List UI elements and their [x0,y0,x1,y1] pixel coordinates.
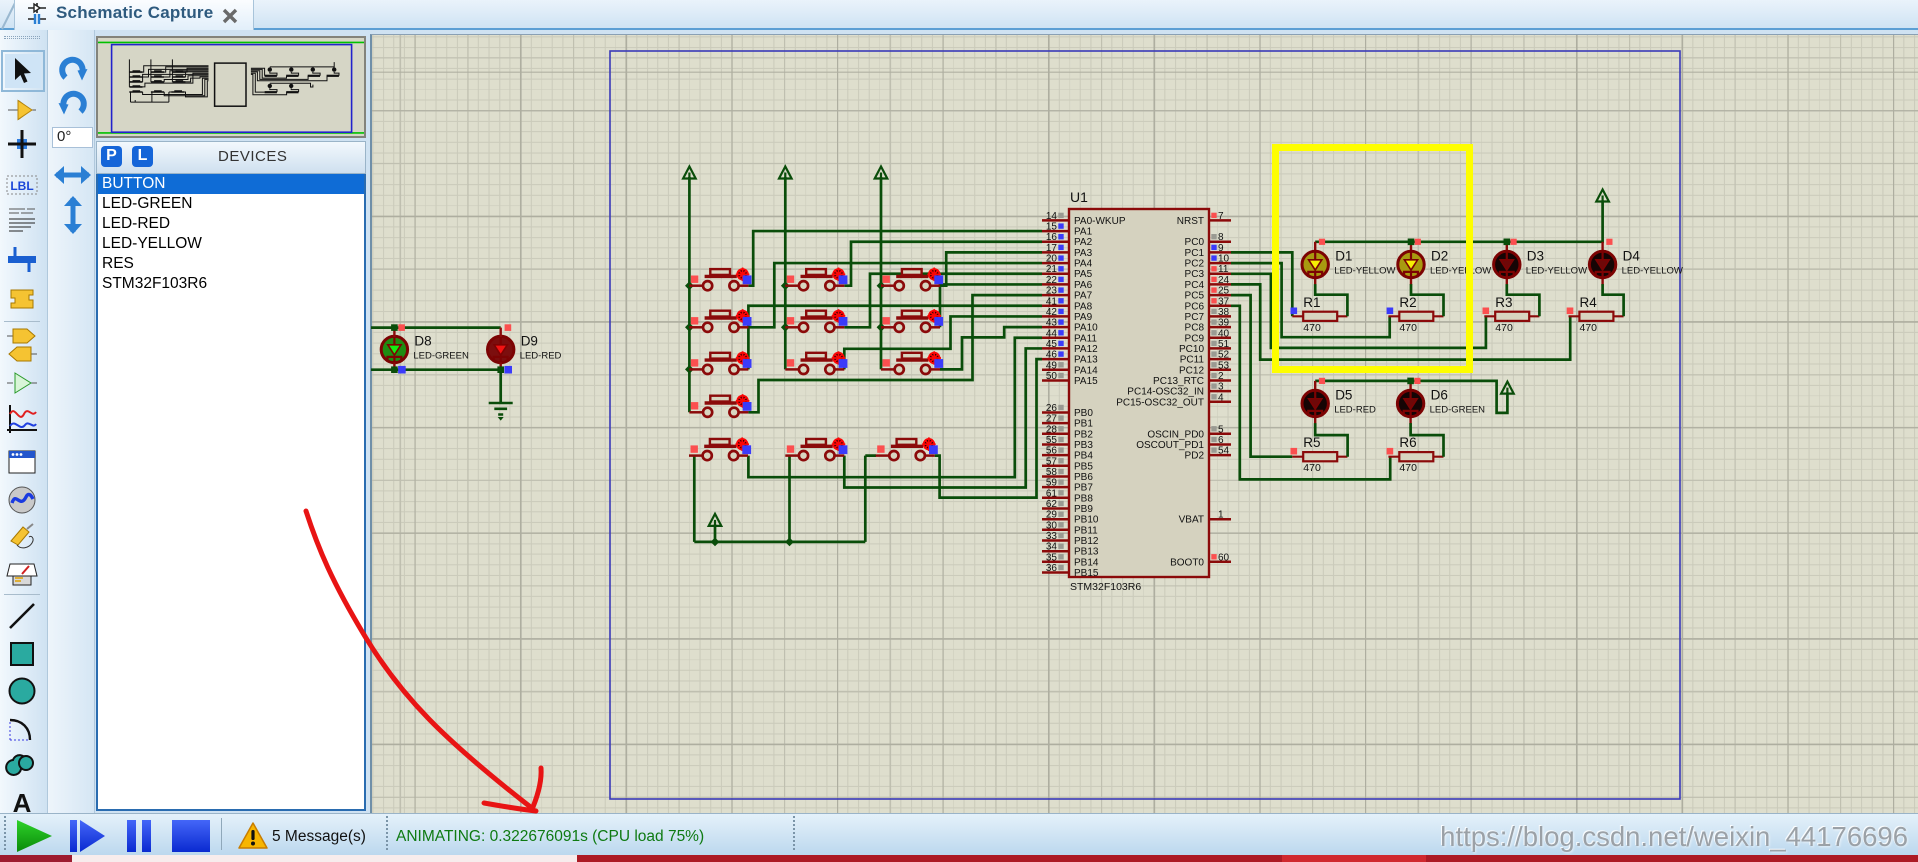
pin 53 PC12 [1209,369,1231,372]
devices header label [218,148,287,165]
svg-text:PC11: PC11 [1180,355,1205,366]
pin 17 PA3 [1042,251,1069,254]
svg-text:7: 7 [1218,211,1224,222]
net PA5 from button row2 col2 [844,274,1042,328]
pin 46 PA13 [1042,358,1069,361]
svg-text:14: 14 [1046,211,1058,222]
net PA10 from button row3 col3 [940,327,1042,369]
overview mcu [215,63,246,106]
svg-text:D2: D2 [1431,249,1448,264]
pushbutton row1 col3 [881,268,943,291]
svg-text:LED-GREEN: LED-GREEN [413,351,469,362]
wire D8 anode stub [393,328,395,337]
pin 3 PC14-OSC32_IN [1209,390,1231,393]
pin 37 PC6 [1209,305,1231,308]
pin 36 PB15 [1042,571,1069,574]
wire D1 anode stub [1314,242,1316,252]
wire D9 cathode stub [500,362,502,369]
pin 51 PC10 [1209,347,1231,350]
pin 6 OSCOUT_PD1 [1209,443,1231,446]
power terminal arrow lower right [1501,382,1514,394]
wire D3 cathode to R3 [1506,275,1508,285]
svg-text:NRST: NRST [1177,216,1204,227]
net PC6 to R6 [1231,306,1390,480]
svg-text:PB10: PB10 [1074,515,1099,526]
pin 4 PC15-OSC32_OUT [1209,401,1231,404]
svg-text:PC15-OSC32_OUT: PC15-OSC32_OUT [1116,397,1204,408]
svg-text:26: 26 [1046,403,1058,414]
svg-text:29: 29 [1046,510,1058,521]
wire anode bus D1-D4 to power [1315,200,1602,241]
junction dot anode bus D6 [1407,378,1414,385]
pin 43 PA10 [1042,326,1069,329]
svg-text:470: 470 [1303,322,1321,334]
svg-text:45: 45 [1046,339,1058,350]
pin 41 PA8 [1042,305,1069,308]
pin 25 PC5 [1209,294,1231,297]
mirror vertical button [62,196,84,234]
svg-text:PC7: PC7 [1185,312,1205,323]
svg-text:9: 9 [1218,243,1224,254]
pin 44 PA11 [1042,337,1069,340]
svg-text:PC3: PC3 [1185,269,1205,280]
toolbar icon 2d line mode [5,599,41,633]
svg-text:D1: D1 [1335,249,1352,264]
resistor R3 [1484,312,1539,321]
bottom strip [0,855,1918,862]
wire D2 cathode to R2 [1410,275,1412,285]
svg-text:16: 16 [1046,232,1058,243]
pin 55 PB3 [1042,443,1069,446]
pin 60 BOOT0 [1209,561,1231,564]
pin 22 PA6 [1042,283,1069,286]
wire D4 anode stub [1601,242,1603,252]
svg-text:PB9: PB9 [1074,504,1093,515]
svg-text:PB11: PB11 [1074,525,1098,536]
yellow highlight rectangle [1276,148,1470,370]
animation status [396,828,704,846]
wire D5 anode stub [1314,381,1316,391]
svg-text:PA1: PA1 [1074,227,1093,238]
ground symbol [489,403,513,415]
pin 7 NRST [1209,219,1231,222]
pin 30 PB11 [1042,529,1069,532]
overview sheet rectangle [112,45,352,133]
toolbar icon graph mode [5,366,41,394]
pin 54 PD2 [1209,454,1231,457]
svg-text:PB1: PB1 [1074,419,1093,430]
wire D6 anode stub [1409,381,1411,391]
wire D8 D9 anode rail [371,326,501,329]
svg-text:PB14: PB14 [1074,557,1099,568]
wire row5 c left drop [865,456,876,542]
pin 1 VBAT [1209,518,1231,521]
play button [17,820,53,852]
overview buttons [129,71,185,92]
toolbar icon 2d arc mode [5,712,41,746]
resistor R6 [1388,452,1443,461]
svg-text:62: 62 [1046,499,1058,510]
svg-text:PA6: PA6 [1074,280,1093,291]
resistor R1 [1292,312,1347,321]
devices list [96,174,366,811]
pin 45 PA12 [1042,347,1069,350]
library button L [132,146,153,167]
svg-text:58: 58 [1046,467,1058,478]
svg-text:PA7: PA7 [1074,291,1093,302]
warning icon [238,822,268,850]
svg-text:D8: D8 [414,334,431,349]
schematic capture tab icon [26,2,48,26]
svg-text:43: 43 [1046,318,1058,329]
junction dot bottom bus 1 [711,538,720,547]
toolbar icon 2d circle mode [5,674,41,708]
svg-text:U1: U1 [1070,189,1088,205]
tab bar [0,0,1918,30]
pushbutton row2 col2 [785,309,847,332]
power terminal arrow power rail column 3 [875,167,888,179]
overview leds and resistors [268,67,272,71]
svg-text:PC5: PC5 [1185,291,1205,302]
svg-text:PC8: PC8 [1185,323,1205,334]
svg-text:PB7: PB7 [1074,483,1093,494]
toolbar icon 2d text mode [5,786,41,814]
pushbutton row5 c [876,437,938,460]
toolbar icon text script mode [5,203,41,237]
svg-text:49: 49 [1046,360,1058,371]
net PA12 from button row5 b [844,348,1042,487]
wire D3 anode stub [1506,242,1508,252]
svg-text:PA2: PA2 [1074,237,1093,248]
pushbutton row3 col2 [785,351,847,374]
junction dot bottom bus 2 [785,538,794,547]
step button [70,820,106,852]
svg-text:23: 23 [1046,286,1058,297]
wire D8 D9 cathode rail [371,368,501,371]
svg-text:PB4: PB4 [1074,451,1093,462]
led D6 LED-GREEN [1397,390,1423,416]
svg-text:D3: D3 [1527,249,1544,264]
svg-text:57: 57 [1046,456,1058,467]
svg-text:PA13: PA13 [1074,355,1098,366]
toolbar icon generator mode [5,483,41,517]
svg-text:LED-YELLOW: LED-YELLOW [1622,266,1683,277]
wire D9 anode stub [500,328,502,337]
svg-text:35: 35 [1046,552,1058,563]
svg-text:R4: R4 [1580,295,1598,310]
svg-text:D9: D9 [521,334,538,349]
svg-text:15: 15 [1046,222,1058,233]
net PA13 from button row5 c [935,359,1042,497]
pin 8 PC0 [1209,240,1231,243]
led D8 LED-GREEN [381,336,407,362]
svg-text:LBL: LBL [10,179,33,193]
toolbar icon component mode [5,93,41,127]
svg-text:PA11: PA11 [1074,333,1097,344]
svg-text:25: 25 [1218,286,1230,297]
junction dots on button columns [685,281,694,290]
power terminal arrow power rail column 2 [779,167,792,179]
led D9 LED-RED [488,336,514,362]
svg-text:39: 39 [1218,318,1230,329]
wire anode bus D5-D6 to power [1315,381,1507,413]
power terminal arrow power rail column 1 [683,167,696,179]
svg-text:36: 36 [1046,563,1058,574]
svg-text:BOOT0: BOOT0 [1170,557,1204,568]
svg-text:PA0-WKUP: PA0-WKUP [1074,216,1126,227]
toolbar icon subcircuit mode [5,282,41,316]
sheet border [610,51,1680,799]
rotation angle field 0deg [52,127,93,148]
svg-text:PC4: PC4 [1185,280,1205,291]
svg-text:VBAT: VBAT [1179,515,1204,526]
svg-text:34: 34 [1046,542,1058,553]
svg-text:54: 54 [1218,446,1230,457]
pin 59 PB7 [1042,486,1069,489]
svg-text:17: 17 [1046,243,1058,254]
net PA1 from button row1 col1 [748,231,1042,286]
svg-text:PA4: PA4 [1074,259,1093,270]
mcu U1 body [1069,209,1209,577]
pin 57 PB5 [1042,465,1069,468]
pushbutton row3 col3 [881,351,943,374]
wire power rail column 3 vertical [880,177,883,369]
svg-text:PC6: PC6 [1185,301,1205,312]
power terminal arrow top right [1596,190,1609,202]
power terminal arrow bottom [709,514,722,526]
svg-text:56: 56 [1046,446,1058,457]
net PA8 from button row3 col1 [748,306,1042,370]
wire bottom power stub [714,524,717,542]
toolbar icon junction dot mode [5,127,41,161]
pin 15 PA1 [1042,230,1069,233]
svg-text:4: 4 [1218,392,1224,403]
svg-text:41: 41 [1046,296,1058,307]
svg-text:28: 28 [1046,424,1058,435]
pin 62 PB9 [1042,507,1069,510]
svg-text:STM32F103R6: STM32F103R6 [1070,581,1141,593]
toolbar icon terminal mode [5,324,41,348]
pin 11 PC3 [1209,273,1231,276]
svg-text:60: 60 [1218,552,1230,563]
net PA4 from button row2 col1 [748,263,1042,327]
svg-text:R2: R2 [1399,295,1416,310]
message count [272,828,366,846]
svg-text:LED-YELLOW: LED-YELLOW [1334,266,1395,277]
rotate column [48,30,95,813]
wire D6 cathode to R6 [1409,414,1411,424]
pin 42 PA9 [1042,315,1069,318]
svg-text:PA14: PA14 [1074,365,1098,376]
resistor R5 [1292,452,1347,461]
pin 14 PA0-WKUP [1042,219,1069,222]
rotate anticlockwise button [56,88,90,120]
svg-text:PA15: PA15 [1074,376,1098,387]
toolbar icon voltage probe mode [5,519,41,553]
svg-text:LED-YELLOW: LED-YELLOW [1526,266,1587,277]
pushbutton row5 b [785,437,847,460]
svg-text:PA9: PA9 [1074,312,1093,323]
junction dot anode bus D2 [1408,239,1415,246]
wire power rail column 1 vertical [688,177,691,412]
mirror horizontal button [54,164,91,186]
pause button [127,820,153,852]
svg-text:470: 470 [1399,322,1417,334]
svg-text:LED-GREEN: LED-GREEN [1430,405,1486,416]
junction dot D9 cathode [497,366,504,373]
svg-text:PA12: PA12 [1074,344,1098,355]
led D4 LED-YELLOW [1589,251,1615,277]
svg-text:470: 470 [1495,322,1513,334]
overview wires [129,59,339,102]
svg-text:A: A [13,788,32,814]
pushbutton row1 col1 [689,268,751,291]
svg-text:470: 470 [1303,462,1321,474]
svg-text:PB15: PB15 [1074,568,1099,579]
svg-text:PC14-OSC32_IN: PC14-OSC32_IN [1127,387,1204,398]
pin 34 PB13 [1042,550,1069,553]
svg-text:PB13: PB13 [1074,547,1099,558]
wire row5 a left drop [693,456,696,542]
svg-text:PB5: PB5 [1074,461,1093,472]
wire row5 b left drop [788,456,791,542]
net PA3 from button row1 col3 [940,252,1042,285]
svg-text:3: 3 [1218,382,1224,393]
svg-text:53: 53 [1218,360,1230,371]
pin 56 PB4 [1042,454,1069,457]
pin 35 PB14 [1042,561,1069,564]
svg-text:11: 11 [1218,264,1229,275]
svg-text:22: 22 [1046,275,1058,286]
net PC2 to R2 [1231,263,1390,337]
pin 16 PA2 [1042,240,1069,243]
wire D2 anode stub [1410,242,1412,252]
svg-text:51: 51 [1218,339,1230,350]
net PC3 to R3 [1231,274,1486,348]
svg-text:37: 37 [1218,296,1230,307]
svg-text:27: 27 [1046,414,1058,425]
bottom toolbar [0,813,1918,855]
svg-text:PC9: PC9 [1185,333,1205,344]
svg-text:OSCOUT_PD1: OSCOUT_PD1 [1136,440,1204,451]
pushbutton row2 col1 [689,309,751,332]
svg-text:21: 21 [1046,264,1058,275]
svg-text:PA3: PA3 [1074,248,1093,259]
wire D8 cathode stub [393,362,395,369]
rotate clockwise button [56,54,90,86]
svg-text:D6: D6 [1431,388,1448,403]
svg-text:PA10: PA10 [1074,323,1098,334]
pin 39 PC8 [1209,326,1231,329]
svg-text:PC10: PC10 [1179,344,1204,355]
toolbar icon 2d closed path mode [5,750,41,784]
svg-text:R5: R5 [1303,435,1320,450]
svg-text:PC2: PC2 [1185,259,1205,270]
wire D5 cathode to R5 [1314,414,1316,424]
stop button [172,820,210,852]
pushbutton row5 a [689,437,751,460]
devices panel header [96,141,366,174]
junction dot anode bus D3 [1504,239,1511,246]
pin 27 PB1 [1042,422,1069,425]
net PA7 from button row4 col1 [748,295,1042,412]
toolbar icon wire label mode [5,168,41,202]
svg-text:470: 470 [1580,322,1598,334]
net PA6 from button row2 col3 [940,284,1042,327]
svg-text:R3: R3 [1495,295,1512,310]
svg-text:R6: R6 [1399,435,1416,450]
svg-text:PC13_RTC: PC13_RTC [1153,376,1204,387]
svg-text:OSCIN_PD0: OSCIN_PD0 [1147,429,1204,440]
pin 40 PC9 [1209,337,1231,340]
svg-text:50: 50 [1046,371,1058,382]
toolbar icon virtual instrument mode [5,556,41,590]
svg-text:LED-YELLOW: LED-YELLOW [1430,266,1491,277]
tab close button [220,6,240,26]
wire bottom power bus [694,541,865,544]
pushbutton row4 col1 [689,394,751,417]
svg-text:D4: D4 [1623,249,1641,264]
svg-text:33: 33 [1046,531,1058,542]
svg-text:5: 5 [1218,424,1224,435]
overview green border top [98,41,364,43]
pin 20 PA4 [1042,262,1069,265]
pin 52 PC11 [1209,358,1231,361]
svg-text:PB12: PB12 [1074,536,1099,547]
svg-text:470: 470 [1399,462,1417,474]
net PC1 to R1 [1231,252,1292,316]
wire D1 cathode to R1 [1314,275,1316,285]
net PA9 from button row3 col2 [844,316,1042,369]
pin 10 PC2 [1209,262,1231,265]
svg-text:LED-RED: LED-RED [520,351,562,362]
svg-text:52: 52 [1218,350,1230,361]
tab corner diagonal [0,0,20,30]
led D3 LED-YELLOW [1494,251,1520,277]
pick devices button P [101,146,122,167]
pin 50 PA15 [1042,379,1069,382]
pushbutton row1 col2 [785,268,847,291]
pin 38 PC7 [1209,315,1231,318]
toolbar icon popup window [5,445,41,479]
junction dot D8 anode [391,324,398,331]
pushbutton row2 col3 [881,309,943,332]
left toolbar [0,30,48,813]
pin 21 PA5 [1042,273,1069,276]
svg-text:PB3: PB3 [1074,440,1093,451]
svg-text:20: 20 [1046,254,1058,265]
svg-text:42: 42 [1046,307,1058,318]
svg-text:44: 44 [1046,328,1058,339]
net PA11 from button row5 a [748,338,1042,477]
svg-text:R1: R1 [1303,295,1320,310]
svg-text:PC12: PC12 [1179,365,1204,376]
svg-text:46: 46 [1046,350,1058,361]
svg-text:PC0: PC0 [1185,237,1205,248]
svg-text:6: 6 [1218,435,1224,446]
csdn watermark [1440,821,1908,853]
svg-text:10: 10 [1218,254,1230,265]
svg-text:8: 8 [1218,232,1224,243]
toolbar icon 2d box mode [5,637,41,671]
svg-text:55: 55 [1046,435,1058,446]
resistor R2 [1388,312,1443,321]
schematic canvas [370,34,1918,813]
overview minimap [96,36,366,138]
net PC4 to R4 [1231,284,1570,359]
svg-text:PB8: PB8 [1074,493,1093,504]
svg-text:38: 38 [1218,307,1230,318]
